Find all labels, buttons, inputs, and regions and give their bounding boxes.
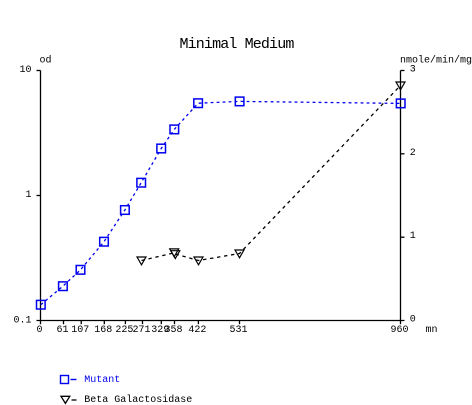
svg-text:10: 10 (19, 65, 31, 76)
right tick 2 (401, 153, 405, 155)
right y axis (400, 71, 402, 321)
svg-text:271: 271 (132, 325, 150, 336)
left tick 10 (37, 70, 41, 72)
svg-text:168: 168 (94, 325, 112, 336)
Mutant dashed line (41, 101, 401, 304)
svg-text:960: 960 (390, 325, 408, 336)
svg-text:mn: mn (426, 325, 438, 336)
left tick 1 (37, 195, 41, 197)
svg-text:225: 225 (115, 325, 133, 336)
svg-text:1: 1 (410, 231, 416, 242)
svg-text:3: 3 (410, 65, 416, 76)
svg-text:od: od (40, 55, 52, 67)
legend (61, 376, 77, 384)
svg-text:Minimal Medium: Minimal Medium (180, 36, 295, 53)
svg-text:1: 1 (25, 190, 31, 201)
svg-text:0: 0 (36, 325, 42, 336)
svg-text:0: 0 (410, 315, 416, 326)
svg-text:Beta Galactosidase: Beta Galactosidase (84, 394, 192, 405)
left y axis (40, 71, 42, 321)
Beta Galactosidase dashed line (142, 86, 401, 261)
svg-text:Mutant: Mutant (84, 375, 120, 386)
x axis (37, 320, 405, 322)
svg-text:61: 61 (56, 325, 68, 336)
svg-text:107: 107 (71, 325, 89, 336)
Beta Galactosidase triangle markers (137, 82, 405, 265)
x ticks (40, 321, 42, 325)
svg-text:358: 358 (164, 325, 182, 336)
svg-text:2: 2 (410, 148, 416, 159)
x axis labels (36, 325, 408, 336)
svg-text:422: 422 (188, 325, 206, 336)
right tick 3 (401, 70, 405, 72)
y axis labels right (410, 65, 416, 326)
svg-text:531: 531 (229, 325, 247, 336)
svg-text:0.1: 0.1 (13, 316, 31, 327)
right tick 1 (401, 236, 405, 238)
Mutant square markers (37, 97, 406, 309)
y axis labels left (13, 65, 31, 326)
